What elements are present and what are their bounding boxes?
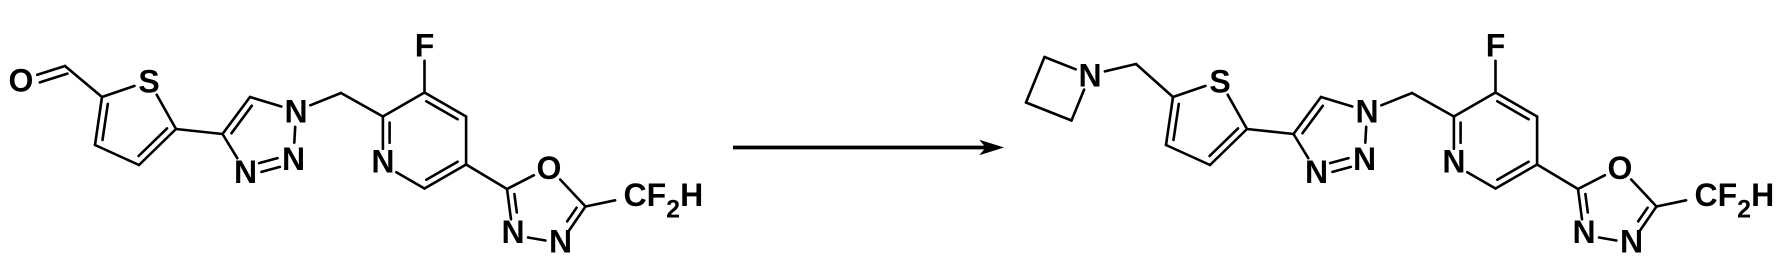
svg-text:N: N xyxy=(284,93,307,129)
atom label reactant triazole N3 xyxy=(234,154,257,190)
atom label reactant pyridine N1 xyxy=(371,143,394,179)
bond reactant pyridine C5 - reactant oxadiazole C2 xyxy=(466,165,507,190)
bond product pyridine C2 - product pyridine C3 xyxy=(1454,93,1496,117)
atom label product triazole N1 xyxy=(1355,93,1378,129)
svg-text:O: O xyxy=(537,150,562,186)
bond reactant thiophene C2 - reactant thiophene S xyxy=(102,86,135,97)
svg-text:N: N xyxy=(1572,214,1595,250)
bond reactant triazole N1 - reactant triazole N2 xyxy=(293,127,297,143)
bond reactant azetidine C2 - reactant azetidine C3 xyxy=(1026,57,1045,103)
double bond reactant oxadiazole C2 - reactant oxadiazole N3 xyxy=(507,189,517,219)
bond product pyridine C4 - product pyridine C5 xyxy=(1536,117,1539,165)
double bond reactant oxadiazole N4 - reactant oxadiazole C5 xyxy=(567,207,585,231)
bond reactant pyridine C4 - reactant pyridine C5 xyxy=(465,117,468,165)
double bond reactant triazole C4 - reactant triazole C5 xyxy=(223,97,252,134)
bond reactant thiophene S - reactant thiophene C5 xyxy=(157,95,176,129)
bond product oxadiazole C5 - product difluoromethyl CF2H xyxy=(1657,200,1687,206)
svg-text:N: N xyxy=(1355,93,1378,129)
bond reactant azetidine N - reactant azetidine C2 xyxy=(1045,57,1076,69)
bond reactant oxadiazole O1 - reactant oxadiazole C5 xyxy=(560,180,585,207)
atom label product oxadiazole O1 xyxy=(1608,150,1633,186)
double bond product thiophene C2 - product thiophene C3 xyxy=(1166,97,1179,145)
svg-text:N: N xyxy=(1078,57,1101,93)
svg-text:O: O xyxy=(1608,150,1633,186)
svg-text:CF2H: CF2H xyxy=(624,177,704,224)
reaction arrow xyxy=(733,141,1002,154)
double bond product pyridine C5 - product pyridine C6 xyxy=(1496,162,1538,189)
bond product triazole N3 - product triazole C4 xyxy=(1294,134,1309,158)
bond reactant methylene CH2 - reactant pyridine C2 xyxy=(341,93,383,117)
bond reactant thiophene C5 - reactant triazole C4 xyxy=(176,129,223,134)
double bond reactant aldehyde O - reactant aldehyde C xyxy=(37,66,67,82)
bond reactant azetidine C3 - reactant azetidine C4 xyxy=(1026,103,1072,121)
bond product oxadiazole C2 - product oxadiazole O1 xyxy=(1578,175,1605,189)
bond product pyridine C6 - product pyridine N1 xyxy=(1467,172,1495,188)
atom label reactant aldehyde O xyxy=(9,62,34,98)
atom label reactant triazole N2 xyxy=(282,141,305,177)
atom label product oxadiazole N3 xyxy=(1572,214,1595,250)
atom label product triazole N2 xyxy=(1353,141,1376,177)
bond product pyridine C5 - product oxadiazole C2 xyxy=(1537,165,1578,190)
svg-text:N: N xyxy=(282,141,305,177)
atom label reactant oxadiazole N4 xyxy=(549,224,572,260)
bond product oxadiazole N3 - product oxadiazole N4 xyxy=(1599,238,1616,241)
double bond product triazole N2 - product triazole N3 xyxy=(1330,158,1351,172)
svg-text:CF2H: CF2H xyxy=(1695,177,1775,224)
bond reactant azetidine methylene CH2 - product thiophene C2 xyxy=(1136,64,1173,97)
svg-text:N: N xyxy=(1620,224,1643,260)
svg-text:N: N xyxy=(1442,143,1465,179)
double bond reactant thiophene C4 - reactant thiophene C5 xyxy=(139,128,176,165)
bond reactant triazole N1 - reactant methylene CH2 xyxy=(310,93,341,105)
bond product triazole N1 - product triazole N2 xyxy=(1364,127,1367,143)
atom label product difluoromethyl CF2H xyxy=(1695,177,1775,224)
bond product oxadiazole O1 - product oxadiazole C5 xyxy=(1631,180,1656,207)
svg-text:N: N xyxy=(501,214,524,250)
atom label reactant fluorine F xyxy=(415,27,435,63)
bond product pyridine C3 - product fluorine F xyxy=(1494,61,1497,93)
double bond reactant pyridine N1 - reactant pyridine C2 xyxy=(383,117,390,149)
bond product thiophene C5 - product triazole C4 xyxy=(1247,129,1294,134)
bond reactant triazole N3 - reactant triazole C4 xyxy=(223,134,238,158)
svg-text:N: N xyxy=(549,224,572,260)
double bond reactant pyridine C5 - reactant pyridine C6 xyxy=(425,162,467,189)
double bond product thiophene C4 - product thiophene C5 xyxy=(1210,128,1247,165)
svg-text:O: O xyxy=(9,62,34,98)
atom label product thiophene S xyxy=(1209,63,1230,99)
bond product thiophene S - product thiophene C5 xyxy=(1228,95,1247,129)
double bond product oxadiazole C2 - product oxadiazole N3 xyxy=(1578,189,1588,219)
svg-text:N: N xyxy=(234,154,257,190)
double bond reactant triazole N2 - reactant triazole N3 xyxy=(259,158,280,172)
bond reactant aldehyde C - reactant thiophene C2 xyxy=(65,66,102,97)
svg-text:S: S xyxy=(138,63,159,99)
atom label reactant triazole N1 xyxy=(284,93,307,129)
atom label reactant oxadiazole O1 xyxy=(537,150,562,186)
atom label product oxadiazole N4 xyxy=(1620,224,1643,260)
double bond product oxadiazole N4 - product oxadiazole C5 xyxy=(1638,207,1656,231)
double bond product triazole C4 - product triazole C5 xyxy=(1294,97,1323,134)
atom label product triazole N3 xyxy=(1305,154,1328,190)
bond product triazole C5 - product triazole N1 xyxy=(1321,97,1352,107)
svg-text:F: F xyxy=(1486,27,1506,63)
bond reactant oxadiazole C5 - reactant difluoromethyl CF2H xyxy=(586,200,616,206)
svg-text:N: N xyxy=(1353,141,1376,177)
atom label reactant azetidine N xyxy=(1078,57,1101,93)
atom label reactant thiophene S xyxy=(138,63,159,99)
bond reactant oxadiazole C2 - reactant oxadiazole O1 xyxy=(507,175,534,189)
double bond product pyridine C3 - product pyridine C4 xyxy=(1496,93,1538,120)
atom label product pyridine N1 xyxy=(1442,143,1465,179)
double bond reactant thiophene C2 - reactant thiophene C3 xyxy=(95,97,108,145)
svg-text:N: N xyxy=(1305,154,1328,190)
bond product thiophene C2 - product thiophene S xyxy=(1173,86,1206,97)
bond product thiophene C3 - product thiophene C4 xyxy=(1166,145,1210,165)
bond reactant azetidine C4 - reactant azetidine N xyxy=(1072,90,1085,121)
bond product methylene CH2 - product pyridine C2 xyxy=(1412,93,1454,117)
bond reactant thiophene C3 - reactant thiophene C4 xyxy=(95,145,139,165)
svg-text:N: N xyxy=(371,143,394,179)
bond reactant oxadiazole N3 - reactant oxadiazole N4 xyxy=(528,238,545,241)
atom label reactant difluoromethyl CF2H xyxy=(624,177,704,224)
bond reactant pyridine C3 - reactant fluorine F xyxy=(423,61,426,93)
bond reactant pyridine C6 - reactant pyridine N1 xyxy=(396,172,424,188)
double bond product pyridine N1 - product pyridine C2 xyxy=(1454,117,1461,149)
bond product triazole N1 - product methylene CH2 xyxy=(1381,93,1412,105)
double bond reactant pyridine C3 - reactant pyridine C4 xyxy=(425,93,467,120)
atom label product fluorine F xyxy=(1486,27,1506,63)
svg-text:S: S xyxy=(1209,63,1230,99)
bond reactant azetidine N - reactant azetidine methylene CH2 xyxy=(1105,64,1136,71)
svg-text:F: F xyxy=(415,27,435,63)
bond reactant pyridine C2 - reactant pyridine C3 xyxy=(383,93,425,117)
atom label reactant oxadiazole N3 xyxy=(501,214,524,250)
bond reactant triazole C5 - reactant triazole N1 xyxy=(250,97,281,107)
